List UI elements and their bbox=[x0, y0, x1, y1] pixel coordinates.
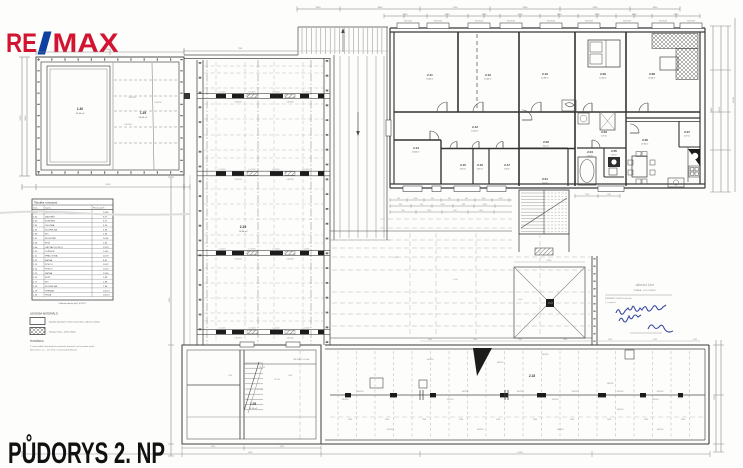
legend swatch 2 bbox=[30, 328, 45, 335]
wall column right of pergola bbox=[591, 256, 593, 345]
svg-text:140/160: 140/160 bbox=[387, 429, 394, 431]
svg-text:1500: 1500 bbox=[414, 198, 418, 200]
svg-text:1500: 1500 bbox=[518, 339, 522, 341]
long left vertical dimension bbox=[170, 177, 172, 456]
far right dimension line bbox=[734, 18, 736, 192]
svg-text:VP 140: VP 140 bbox=[259, 367, 265, 369]
svg-text:5,20 m²: 5,20 m² bbox=[587, 155, 594, 158]
svg-text:140/160: 140/160 bbox=[447, 399, 454, 401]
svg-text:140/200: 140/200 bbox=[286, 179, 294, 181]
svg-text:I+L/200: I+L/200 bbox=[303, 92, 311, 94]
block 1.28 outer walls bbox=[182, 345, 321, 444]
svg-text:I+L/200: I+L/200 bbox=[303, 169, 311, 171]
svg-text:8550: 8550 bbox=[106, 184, 112, 186]
svg-text:23,29: 23,29 bbox=[103, 247, 109, 249]
right dimension lines wing bbox=[715, 340, 717, 452]
svg-text:900: 900 bbox=[420, 204, 423, 206]
wing center beam bbox=[330, 394, 705, 396]
svg-text:1800: 1800 bbox=[632, 14, 638, 16]
svg-text:140/160: 140/160 bbox=[552, 399, 559, 401]
svg-text:900/1500: 900/1500 bbox=[547, 21, 555, 23]
svg-text:I+L/200: I+L/200 bbox=[219, 249, 227, 251]
block 1.28 window bumps bbox=[240, 342, 254, 347]
dimension under block 1.28 bbox=[182, 447, 321, 449]
svg-text:160/180: 160/180 bbox=[462, 391, 469, 393]
svg-text:1200: 1200 bbox=[499, 198, 503, 200]
svg-text:CHODBA: CHODBA bbox=[45, 224, 55, 227]
svg-text:2.19: 2.19 bbox=[240, 225, 247, 229]
RE/MAX logo bbox=[6, 28, 119, 58]
svg-text:900: 900 bbox=[465, 198, 468, 200]
svg-text:19450: 19450 bbox=[517, 452, 524, 454]
svg-text:+1,10: +1,10 bbox=[517, 299, 523, 301]
svg-text:140/160: 140/160 bbox=[542, 354, 549, 356]
svg-text:1500: 1500 bbox=[473, 339, 477, 341]
svg-text:1500: 1500 bbox=[483, 204, 487, 206]
interior wall 2.09/2.08 bbox=[625, 32, 627, 112]
wall 2.14 top bbox=[394, 139, 441, 141]
svg-text:1.28: 1.28 bbox=[250, 402, 256, 406]
desk chair 2.02 bbox=[562, 100, 576, 111]
kitchen top wall bbox=[626, 117, 700, 119]
svg-text:27,60 m²: 27,60 m² bbox=[641, 143, 649, 146]
svg-text:2.14: 2.14 bbox=[413, 146, 419, 150]
open terrace bottom edge bbox=[330, 337, 592, 339]
svg-text:10,40 m²: 10,40 m² bbox=[471, 130, 479, 133]
svg-text:TERASA: TERASA bbox=[45, 289, 54, 292]
svg-text:900/1500: 900/1500 bbox=[507, 21, 515, 23]
dimension rows below building bbox=[390, 199, 512, 201]
dimension rows right of stairs bbox=[575, 195, 620, 197]
svg-text:9600: 9600 bbox=[20, 115, 22, 121]
svg-text:120,15: 120,15 bbox=[103, 295, 110, 297]
terrace right wall bbox=[323, 58, 325, 345]
svg-text:3800: 3800 bbox=[378, 7, 384, 9]
wall 2.15/2.16 bbox=[472, 148, 474, 184]
building outer wall bottom bbox=[390, 183, 705, 185]
svg-text:I+L/200: I+L/200 bbox=[219, 328, 227, 330]
svg-text:140/200: 140/200 bbox=[128, 97, 136, 99]
bathtub 2.04 bbox=[578, 157, 596, 185]
svg-text:140/200: 140/200 bbox=[124, 124, 132, 126]
corner pantry black bbox=[688, 149, 700, 166]
svg-text:KUCHYNĚ: KUCHYNĚ bbox=[45, 237, 56, 240]
left wall window bbox=[386, 120, 391, 136]
room 1.39 center line bbox=[152, 63, 154, 170]
svg-text:140/200: 140/200 bbox=[286, 102, 294, 104]
svg-text:140/160: 140/160 bbox=[607, 383, 614, 385]
corridor 2.13 bottom wall bbox=[441, 148, 575, 150]
svg-text:140/160: 140/160 bbox=[557, 429, 564, 431]
open terrace dashed grid upper bbox=[380, 218, 512, 220]
svg-text:900/1500: 900/1500 bbox=[475, 21, 483, 23]
svg-text:PRACOVNA: PRACOVNA bbox=[45, 254, 58, 257]
svg-text:2.08: 2.08 bbox=[649, 72, 655, 76]
svg-text:140/160: 140/160 bbox=[477, 429, 484, 431]
svg-text:1500: 1500 bbox=[496, 419, 500, 421]
svg-text:Stávající zdivo - zděné, příčk: Stávající zdivo - zděné, příčky bbox=[49, 331, 76, 334]
terrace interior grid dashed bbox=[204, 65, 324, 67]
scan fold line bbox=[0, 212, 190, 215]
svg-text:I+L/200: I+L/200 bbox=[249, 249, 257, 251]
svg-text:I+L/200: I+L/200 bbox=[303, 249, 311, 251]
svg-text:ŠPÍŽ: ŠPÍŽ bbox=[45, 241, 51, 244]
svg-text:2.07: 2.07 bbox=[684, 130, 690, 134]
svg-text:3,60 m²: 3,60 m² bbox=[477, 168, 484, 171]
svg-text:1950: 1950 bbox=[595, 14, 601, 16]
block 1.28 inner walls bbox=[239, 350, 241, 439]
wing small boxes bbox=[370, 378, 383, 388]
svg-text:OBÝVACÍ POKOJ: OBÝVACÍ POKOJ bbox=[45, 246, 63, 249]
svg-text:1900: 1900 bbox=[557, 14, 563, 16]
svg-text:350: 350 bbox=[402, 210, 405, 212]
wall 2.14 right bbox=[440, 140, 442, 184]
svg-text:140/200: 140/200 bbox=[286, 338, 294, 340]
dimension below pool bbox=[22, 186, 190, 188]
svg-text:VP 140: VP 140 bbox=[274, 379, 280, 381]
svg-text:15,50: 15,50 bbox=[103, 269, 109, 271]
svg-text:1500: 1500 bbox=[607, 419, 611, 421]
svg-text:I+L/200: I+L/200 bbox=[219, 169, 227, 171]
wing outer walls bbox=[325, 344, 709, 346]
svg-text:1500: 1500 bbox=[644, 419, 648, 421]
ramp lines bbox=[339, 56, 341, 238]
svg-text:číslo: číslo bbox=[33, 208, 38, 210]
corridor wall horizontal bbox=[394, 111, 700, 113]
svg-text:2.12: 2.12 bbox=[485, 73, 491, 77]
svg-text:PŮDORYS 2. NP: PŮDORYS 2. NP bbox=[8, 434, 165, 468]
stair cut line bbox=[521, 198, 567, 228]
pergola square with diagonals bbox=[514, 267, 585, 338]
svg-text:16,32: 16,32 bbox=[103, 264, 109, 266]
bottom overall dimension bbox=[22, 453, 710, 455]
signature handwriting blue bbox=[616, 305, 666, 314]
interior wall 2.10/2.09 bbox=[574, 32, 576, 186]
svg-text:2100: 2100 bbox=[445, 14, 451, 16]
svg-text:2450: 2450 bbox=[593, 7, 599, 9]
building outer wall left bbox=[389, 28, 391, 188]
svg-text:9,50 m²: 9,50 m² bbox=[543, 145, 550, 148]
svg-text:1500: 1500 bbox=[428, 339, 432, 341]
svg-text:8960: 8960 bbox=[25, 115, 27, 121]
wall 2.16/2.17 bbox=[488, 148, 490, 184]
svg-text:35,40 m²: 35,40 m² bbox=[76, 112, 85, 115]
svg-text:+1,20: +1,20 bbox=[392, 257, 398, 259]
svg-text:Celková plocha (m²): 474,21: Celková plocha (m²): 474,21 bbox=[58, 302, 86, 305]
svg-text:I+L/200: I+L/200 bbox=[273, 249, 281, 251]
svg-text:160/180: 160/180 bbox=[357, 391, 364, 393]
svg-text:ŠATNA: ŠATNA bbox=[45, 272, 53, 275]
svg-text:54,10 m²: 54,10 m² bbox=[249, 407, 257, 410]
beam row 1 bbox=[197, 93, 330, 95]
svg-text:1500: 1500 bbox=[693, 339, 697, 341]
ramp side walls bbox=[333, 55, 335, 240]
svg-text:140/200: 140/200 bbox=[234, 102, 242, 104]
svg-text:2000: 2000 bbox=[518, 14, 524, 16]
svg-text:140/160: 140/160 bbox=[342, 399, 349, 401]
svg-text:140/200: 140/200 bbox=[234, 179, 242, 181]
bottom wall windows bbox=[403, 186, 422, 192]
wing tick row bbox=[330, 416, 705, 418]
svg-text:2.17: 2.17 bbox=[504, 163, 510, 167]
svg-text:140/160: 140/160 bbox=[657, 429, 664, 431]
svg-text:RE: RE bbox=[6, 28, 37, 58]
svg-text:PŮDA: PŮDA bbox=[45, 294, 52, 297]
sink 2.05 bbox=[608, 157, 620, 167]
svg-text:1500: 1500 bbox=[563, 339, 567, 341]
svg-text:900/1500: 900/1500 bbox=[659, 21, 667, 23]
svg-text:WC: WC bbox=[45, 282, 49, 284]
terrace top edge bbox=[184, 54, 298, 56]
beam row 2 bbox=[197, 170, 330, 172]
svg-text:160/180: 160/180 bbox=[572, 391, 579, 393]
svg-text:160/180: 160/180 bbox=[617, 391, 624, 393]
svg-text:12400: 12400 bbox=[733, 96, 735, 103]
svg-text:Nosný/é obvodové i vnitřní nos: Nosný/é obvodové i vnitřní nosné zdivo, … bbox=[49, 321, 100, 324]
staircase below building bbox=[519, 190, 569, 234]
svg-text:2.15: 2.15 bbox=[460, 163, 466, 167]
terrace axis dash-dot lines bbox=[206, 60, 208, 344]
svg-text:PRAHA - KOLOVRATY: PRAHA - KOLOVRATY bbox=[634, 289, 657, 292]
svg-text:10250: 10250 bbox=[719, 106, 721, 113]
svg-text:2.13: 2.13 bbox=[472, 125, 478, 129]
dashed division in 2.12 bbox=[476, 34, 478, 110]
stove bbox=[689, 166, 700, 177]
legend swatch 1 bbox=[30, 318, 45, 325]
svg-text:26,60 m²: 26,60 m² bbox=[139, 116, 148, 119]
svg-text:ZÁDVEŘÍ: ZÁDVEŘÍ bbox=[45, 215, 55, 218]
svg-text:I+L/200: I+L/200 bbox=[249, 328, 257, 330]
svg-text:14,60 m²: 14,60 m² bbox=[484, 78, 492, 81]
svg-text:2.06: 2.06 bbox=[642, 138, 648, 142]
svg-text:14,60 m²: 14,60 m² bbox=[426, 78, 434, 81]
svg-text:KOUPELNA: KOUPELNA bbox=[45, 285, 57, 288]
wing H markers bbox=[419, 390, 421, 400]
svg-text:18,60 m²: 18,60 m² bbox=[412, 151, 420, 154]
svg-text:POZNÁMKA:: POZNÁMKA: bbox=[30, 340, 44, 343]
dimension above pool bbox=[36, 51, 184, 53]
svg-text:900/1500: 900/1500 bbox=[404, 21, 412, 23]
kitchen sink bbox=[668, 178, 684, 187]
svg-text:1700: 1700 bbox=[228, 375, 232, 377]
upper stair treads bbox=[301, 28, 303, 54]
svg-text:1500: 1500 bbox=[608, 339, 612, 341]
svg-text:2.01: 2.01 bbox=[542, 177, 548, 181]
block 1.28 stairs bbox=[245, 362, 263, 364]
svg-text:1500: 1500 bbox=[681, 419, 685, 421]
kitchen/bath wall bbox=[625, 112, 627, 186]
svg-text:600: 600 bbox=[448, 198, 451, 200]
svg-text:5,70 m²: 5,70 m² bbox=[601, 135, 608, 138]
svg-text:2.05: 2.05 bbox=[611, 149, 617, 153]
left dimension line bbox=[21, 57, 23, 176]
svg-text:8550: 8550 bbox=[106, 49, 112, 51]
svg-text:VP 140: VP 140 bbox=[257, 389, 263, 391]
svg-text:900/1500: 900/1500 bbox=[687, 21, 695, 23]
svg-text:I+L/200: I+L/200 bbox=[273, 328, 281, 330]
svg-text:1500: 1500 bbox=[348, 419, 352, 421]
stair sill hatched bbox=[535, 248, 553, 255]
svg-text:MĚSTSKÁ ČÁST: MĚSTSKÁ ČÁST bbox=[636, 284, 655, 287]
svg-text:2.16: 2.16 bbox=[477, 163, 483, 167]
svg-text:I+L/200: I+L/200 bbox=[303, 328, 311, 330]
signature flourish bbox=[648, 325, 673, 332]
shower 2.03 bbox=[600, 112, 615, 130]
svg-text:16,80 m²: 16,80 m² bbox=[541, 77, 549, 80]
svg-text:I+L/200: I+L/200 bbox=[249, 169, 257, 171]
toilet 2.05 bbox=[609, 168, 617, 175]
svg-text:140/200: 140/200 bbox=[234, 338, 242, 340]
svg-text:MAX: MAX bbox=[53, 28, 119, 58]
beam row 4 bbox=[197, 329, 330, 331]
up arrow bbox=[342, 31, 344, 52]
stair room wall bbox=[567, 148, 569, 186]
svg-text:143,21: 143,21 bbox=[103, 290, 110, 292]
svg-text:900: 900 bbox=[397, 198, 400, 200]
kitchen counter bbox=[687, 147, 689, 182]
svg-text:140/200: 140/200 bbox=[234, 259, 242, 261]
svg-text:15,40 m²: 15,40 m² bbox=[599, 77, 607, 80]
svg-text:1700: 1700 bbox=[288, 375, 292, 377]
svg-text:160/180: 160/180 bbox=[517, 391, 524, 393]
svg-text:140/160: 140/160 bbox=[497, 362, 504, 364]
wing top dimension row bbox=[420, 340, 700, 342]
svg-text:16,78: 16,78 bbox=[103, 255, 109, 257]
svg-text:I+L/200: I+L/200 bbox=[273, 92, 281, 94]
svg-text:1500: 1500 bbox=[482, 14, 488, 16]
svg-text:13,86: 13,86 bbox=[103, 273, 109, 275]
svg-text:2,90 m²: 2,90 m² bbox=[611, 154, 618, 157]
pergola dimension marks bbox=[514, 261, 585, 263]
svg-text:140/200: 140/200 bbox=[286, 259, 294, 261]
svg-text:600: 600 bbox=[480, 210, 483, 212]
svg-text:POKOJ: POKOJ bbox=[45, 269, 52, 271]
door arcs bbox=[437, 102, 447, 112]
svg-text:7,10 m²: 7,10 m² bbox=[542, 182, 549, 185]
bath partition walls bbox=[577, 147, 626, 149]
window bumps top wall bbox=[397, 23, 419, 29]
svg-text:1950: 1950 bbox=[607, 194, 611, 196]
svg-text:ŠATNA: ŠATNA bbox=[45, 259, 53, 262]
svg-text:900/1500: 900/1500 bbox=[434, 21, 442, 23]
svg-text:4,90 m²: 4,90 m² bbox=[460, 168, 467, 171]
upper stair landing outline bbox=[298, 26, 388, 28]
interior wall 2.11/2.12 bbox=[457, 32, 459, 112]
open terrace boundary bbox=[330, 230, 512, 232]
right dimension lines building bbox=[712, 26, 714, 192]
washing machine bbox=[578, 113, 589, 124]
svg-text:WC: WC bbox=[45, 234, 49, 236]
svg-text:2.10: 2.10 bbox=[542, 72, 548, 76]
top dimension line 2 bbox=[384, 15, 700, 17]
svg-text:900/1500: 900/1500 bbox=[585, 21, 593, 23]
svg-text:2350: 2350 bbox=[674, 14, 680, 16]
svg-text:LOŽNICE: LOŽNICE bbox=[45, 250, 55, 253]
svg-text:SPÍŽ: SPÍŽ bbox=[45, 276, 51, 279]
svg-text:160/180: 160/180 bbox=[657, 391, 664, 393]
dining table 2.06 bbox=[632, 156, 647, 177]
interior wall 2.12/2.10 bbox=[518, 32, 520, 186]
svg-text:140/160: 140/160 bbox=[617, 409, 624, 411]
svg-text:2.03: 2.03 bbox=[601, 130, 607, 134]
svg-text:140/200: 140/200 bbox=[154, 102, 162, 104]
svg-text:I+L/200: I+L/200 bbox=[219, 92, 227, 94]
svg-text:1500: 1500 bbox=[653, 339, 657, 341]
svg-text:I+L/200: I+L/200 bbox=[249, 92, 257, 94]
svg-text:20,40 m²: 20,40 m² bbox=[648, 77, 656, 80]
svg-text:1.40: 1.40 bbox=[77, 107, 83, 111]
svg-text:2.04: 2.04 bbox=[587, 150, 593, 154]
svg-text:Plocha (m²): Plocha (m²) bbox=[93, 207, 105, 210]
room table bbox=[32, 199, 113, 300]
beam end mark bbox=[184, 93, 190, 99]
svg-text:1500: 1500 bbox=[422, 419, 426, 421]
pool building wall ticks bbox=[37, 59, 40, 173]
down arrow bbox=[357, 112, 359, 133]
svg-text:KOMORA: KOMORA bbox=[45, 220, 55, 223]
svg-text:POKOJ: POKOJ bbox=[45, 264, 52, 266]
svg-text:2.02: 2.02 bbox=[543, 140, 549, 144]
wing rafter dashed verticals bbox=[337, 351, 339, 438]
svg-text:Tabulka místností: Tabulka místností bbox=[34, 200, 58, 204]
svg-text:KOUPELNA: KOUPELNA bbox=[45, 228, 57, 231]
svg-text:1200: 1200 bbox=[427, 210, 431, 212]
svg-text:název: název bbox=[45, 208, 52, 210]
svg-text:2.09: 2.09 bbox=[600, 72, 606, 76]
svg-text:2250: 2250 bbox=[585, 194, 589, 196]
svg-text:V území podlaží zakreslený bez: V území podlaží zakreslený bez stavebníc… bbox=[30, 345, 95, 348]
open terrace dashed grid bbox=[332, 247, 512, 249]
building outer wall top bbox=[390, 27, 705, 29]
room 1.39 joist lines bbox=[114, 79, 179, 81]
svg-text:74,80 m²: 74,80 m² bbox=[239, 230, 248, 233]
pool basin bbox=[47, 66, 110, 165]
stair shaft down bbox=[518, 234, 520, 252]
svg-text:4350: 4350 bbox=[653, 7, 659, 9]
svg-text:900: 900 bbox=[399, 204, 402, 206]
svg-text:2550: 2550 bbox=[316, 7, 322, 9]
terrace left boundary below pool bbox=[183, 57, 185, 345]
svg-text:900: 900 bbox=[454, 210, 457, 212]
svg-text:+1,40: +1,40 bbox=[452, 279, 458, 281]
svg-text:7,40 m²: 7,40 m² bbox=[504, 168, 511, 171]
svg-text:1500: 1500 bbox=[459, 419, 463, 421]
svg-text:2700: 2700 bbox=[453, 7, 459, 9]
svg-text:2.11: 2.11 bbox=[427, 73, 433, 77]
svg-text:1500: 1500 bbox=[385, 419, 389, 421]
top dimension over terrace bbox=[184, 50, 298, 52]
beam row 3 bbox=[197, 250, 330, 252]
svg-text:16,96: 16,96 bbox=[103, 238, 109, 240]
svg-text:Výkresech D. 1.1. - 1.17 členy: Výkresech D. 1.1. - 1.17 členy v samosta… bbox=[30, 349, 77, 352]
pool building outer wall bbox=[36, 57, 184, 175]
svg-text:600: 600 bbox=[462, 204, 465, 206]
svg-text:UŽITNÁ PLOCHA: UŽITNÁ PLOCHA bbox=[293, 358, 310, 361]
svg-text:14,45: 14,45 bbox=[103, 251, 109, 253]
svg-text:I+L/200: I+L/200 bbox=[273, 169, 281, 171]
desk room 2.08 bbox=[660, 57, 678, 70]
svg-text:1500: 1500 bbox=[533, 419, 537, 421]
top dimension line 1 bbox=[297, 8, 680, 10]
bed room 2.09 bbox=[588, 40, 620, 67]
pantry 2.07 walls bbox=[678, 121, 680, 147]
svg-text:2900: 2900 bbox=[523, 7, 529, 9]
svg-text:1500: 1500 bbox=[482, 198, 486, 200]
svg-text:1500: 1500 bbox=[570, 419, 574, 421]
roof slope triangle bbox=[473, 348, 492, 376]
svg-text:600: 600 bbox=[431, 198, 434, 200]
svg-text:2.18: 2.18 bbox=[529, 374, 535, 378]
